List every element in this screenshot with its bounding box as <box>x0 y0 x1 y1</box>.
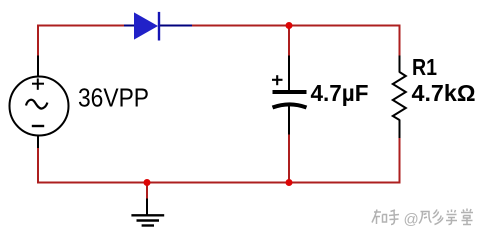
glyph fei <box>419 212 432 224</box>
resistor R1 bottom lead (black) <box>399 120 401 139</box>
ground symbol bar 2 (middle) <box>137 219 160 221</box>
resistor R1 top lead (black) <box>399 56 401 73</box>
ground symbol bar 3 (shortest) <box>142 224 154 226</box>
ground symbol bar 1 (longest) <box>131 214 164 216</box>
junction dot at capacitor top <box>286 22 293 29</box>
wire capacitor bottom stub (red) <box>288 134 290 183</box>
wire right vertical upper (red) <box>399 25 401 57</box>
capacitor C1 bottom lead (black) <box>288 106 290 135</box>
wire bottom horizontal (red) <box>37 182 401 184</box>
diode D1 left lead (navy) <box>124 25 136 27</box>
AC source V1 bottom lead (black) <box>37 135 39 148</box>
junction dot at capacitor bottom <box>286 179 293 186</box>
wire left vertical lower (red) <box>37 148 39 184</box>
resistor R1 zigzag body <box>393 72 406 120</box>
wire capacitor top stub (red) <box>288 26 290 57</box>
capacitor C1 polarity plus sign <box>272 75 283 85</box>
AC source V1 sine symbol <box>26 100 47 109</box>
diode D1 cathode bar <box>158 12 160 41</box>
svg-text:4.7kΩ: 4.7kΩ <box>412 80 476 106</box>
svg-text:4.7µF: 4.7µF <box>311 80 369 106</box>
glyph tang <box>461 209 473 225</box>
glyph zhi <box>372 210 381 225</box>
wire left vertical upper (red) <box>37 25 39 57</box>
glyph hu <box>389 210 399 225</box>
wire right vertical lower (red) <box>399 138 401 184</box>
ground symbol vertical lead (black) <box>146 199 148 215</box>
capacitor C1 top plate <box>273 90 307 94</box>
svg-text:36VPP: 36VPP <box>78 83 149 113</box>
wire top-right horizontal (red) <box>191 25 401 27</box>
glyph xue <box>446 210 457 225</box>
AC source V1 plus symbol <box>32 78 44 89</box>
AC source V1 circle <box>10 77 69 136</box>
diode D1 right lead (navy) <box>158 25 192 27</box>
capacitor C1 top lead (black) <box>288 56 290 91</box>
watermark text: zhihu @feiduoxuetang <box>372 209 473 229</box>
svg-text:R1: R1 <box>412 54 437 80</box>
wire top-left horizontal (red) <box>37 25 125 27</box>
wire ground stub (red) <box>146 183 148 200</box>
diode D1 anode triangle <box>134 12 158 39</box>
glyph duo <box>433 210 444 225</box>
svg-text:@: @ <box>404 211 419 228</box>
capacitor C1 bottom curved plate <box>273 104 307 107</box>
junction dot at ground <box>144 179 151 186</box>
AC source V1 minus symbol <box>32 125 44 127</box>
AC source V1 top lead (black) <box>37 56 39 78</box>
